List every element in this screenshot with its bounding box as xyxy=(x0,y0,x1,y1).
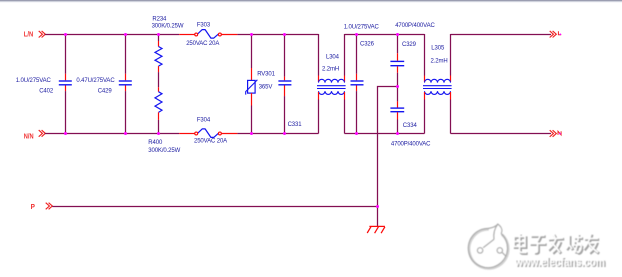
svg-text:RV301: RV301 xyxy=(257,71,275,77)
varistor RV301 xyxy=(246,34,276,134)
wire bottom rail from fuse F304 to choke L304 xyxy=(237,133,318,135)
junction top rail at C402 xyxy=(64,33,67,36)
junction bottom rail at C334 xyxy=(396,132,399,135)
port connector L/N chevron xyxy=(39,31,46,38)
inductor L305 common-mode choke xyxy=(423,34,452,134)
svg-text:2.2mH: 2.2mH xyxy=(431,59,448,65)
wire earth tap from C329/C334 midpoint xyxy=(378,87,398,227)
junction top rail at C326 xyxy=(355,33,358,36)
port connector output L chevron xyxy=(550,31,557,38)
svg-text:N/N: N/N xyxy=(24,131,34,140)
junction P rail at earth drop xyxy=(376,205,379,208)
wire between R234 and R400 xyxy=(158,72,160,87)
inductor L304 common-mode choke xyxy=(317,34,346,134)
wire top rail fuse F303 right red lead xyxy=(221,34,237,36)
junction top rail at C331 xyxy=(283,33,286,36)
resistor R400 xyxy=(148,87,180,154)
wire bottom rail from choke L304 to choke L305 xyxy=(345,133,425,135)
fuse F303 xyxy=(186,22,221,47)
junction top rail at RV301 xyxy=(250,33,253,36)
wire top rail from fuse F303 to choke L304 xyxy=(237,34,318,36)
junction bottom rail at C402 xyxy=(64,132,67,135)
svg-text:4700P/400VAC: 4700P/400VAC xyxy=(391,142,431,148)
capacitor C429 xyxy=(76,34,131,134)
wire top rail from choke L304 to choke L305 xyxy=(345,34,425,36)
junction bottom rail at C326 xyxy=(355,132,358,135)
node output N pin label xyxy=(558,131,561,135)
svg-text:C326: C326 xyxy=(360,41,375,47)
svg-text:L305: L305 xyxy=(431,46,445,52)
port connector N/N chevron xyxy=(39,130,46,137)
wire bottom rail fuse F304 left red lead xyxy=(179,133,195,135)
junction top rail at R234 xyxy=(157,33,160,36)
port connector P chevron xyxy=(46,203,53,210)
wire top rail from choke L305 to output xyxy=(451,34,552,36)
svg-text:R400: R400 xyxy=(148,140,163,146)
wire top rail from L/N to fuse F303 xyxy=(45,34,179,36)
svg-text:P: P xyxy=(31,202,35,211)
svg-text:C329: C329 xyxy=(402,42,417,48)
junction top rail at C329 xyxy=(396,33,399,36)
svg-text:C429: C429 xyxy=(98,89,113,95)
wire bottom rail fuse F304 right red lead xyxy=(221,133,237,135)
capacitor C326 xyxy=(344,24,380,133)
node N/N input label xyxy=(24,131,34,140)
svg-text:www.elecfans.com: www.elecfans.com xyxy=(514,256,605,269)
svg-text:C334: C334 xyxy=(403,123,418,129)
node L/N input label xyxy=(24,30,33,39)
node output L pin label xyxy=(558,31,561,35)
junction bottom rail at R400 xyxy=(157,132,160,135)
node P input label xyxy=(31,202,35,211)
ground earth symbol xyxy=(367,226,385,233)
svg-text:C402: C402 xyxy=(39,89,54,95)
resistor R234 xyxy=(152,17,184,73)
capacitor C334 xyxy=(390,86,431,148)
junction earth tap at C329/C334 midpoint xyxy=(396,85,399,88)
junction bottom rail at C331 xyxy=(283,132,286,135)
svg-text:C331: C331 xyxy=(288,122,303,128)
svg-text:L304: L304 xyxy=(326,55,340,61)
wire P rail to earth junction xyxy=(52,206,377,208)
svg-text:250VAC 20A: 250VAC 20A xyxy=(194,139,227,145)
svg-text:365V: 365V xyxy=(259,84,273,90)
watermark logo circle xyxy=(468,224,508,268)
fuse F304 xyxy=(194,118,227,145)
svg-text:1.0U/275VAC: 1.0U/275VAC xyxy=(16,78,52,84)
svg-text:L/N: L/N xyxy=(24,30,33,39)
svg-text:R234: R234 xyxy=(152,17,167,23)
capacitor C331 xyxy=(278,34,302,134)
port connector output N chevron xyxy=(550,130,557,137)
svg-text:300K/0.25W: 300K/0.25W xyxy=(148,148,180,154)
svg-text:4700P/400VAC: 4700P/400VAC xyxy=(395,23,435,29)
svg-text:250VAC 20A: 250VAC 20A xyxy=(186,41,219,47)
svg-text:F304: F304 xyxy=(197,118,211,124)
capacitor C402 xyxy=(16,34,72,134)
svg-text:300K/0.25W: 300K/0.25W xyxy=(152,24,184,30)
svg-text:2.2mH: 2.2mH xyxy=(322,67,339,73)
svg-text:0.47U/275VAC: 0.47U/275VAC xyxy=(76,78,115,84)
svg-text:F303: F303 xyxy=(197,22,211,28)
watermark text www.elecfans.com xyxy=(514,256,606,270)
junction bottom rail at RV301 xyxy=(250,132,253,135)
wire bottom rail from choke L305 to output xyxy=(451,133,552,135)
wire bottom rail from N/N to fuse F304 xyxy=(45,133,179,135)
junction top rail at C429 xyxy=(124,33,127,36)
svg-text:1.0U/275VAC: 1.0U/275VAC xyxy=(344,24,380,30)
capacitor C329 xyxy=(390,23,435,86)
wire top rail fuse F303 left red lead xyxy=(179,34,195,36)
watermark text 电子发烧友 xyxy=(514,234,599,254)
junction bottom rail at C429 xyxy=(124,132,127,135)
